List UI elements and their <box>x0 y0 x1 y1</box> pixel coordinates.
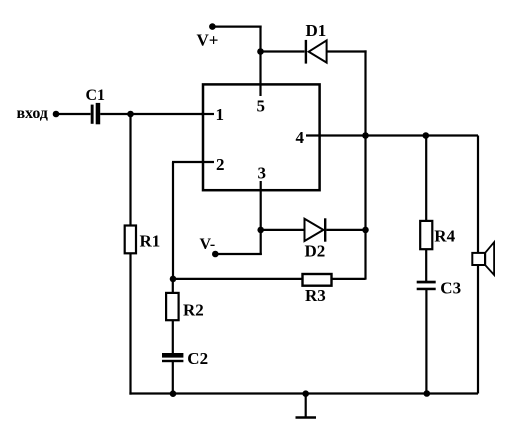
ground stub <box>305 394 307 418</box>
node вход input terminal dot <box>53 111 60 118</box>
svg-text:R3: R3 <box>305 286 326 305</box>
diode D2 <box>305 218 327 241</box>
wire V+ to corner <box>212 26 261 28</box>
diode D1 <box>305 40 327 64</box>
wire pin 2 horizontal <box>172 161 214 163</box>
svg-text:3: 3 <box>258 164 267 183</box>
wire R2 to C2 <box>172 320 174 354</box>
wire R4 to C3 <box>425 249 427 281</box>
svg-text:C1: C1 <box>86 87 106 104</box>
svg-text:D2: D2 <box>305 242 326 261</box>
wire right outer vertical <box>477 136 479 394</box>
ground bar <box>296 416 317 419</box>
svg-text:D1: D1 <box>306 21 327 40</box>
svg-text:C2: C2 <box>187 349 208 368</box>
svg-text:1: 1 <box>216 105 225 124</box>
wire pin 1 inside stub <box>201 113 214 115</box>
wire input to C1 <box>56 113 91 115</box>
wire C2 to bottom rail <box>172 362 174 394</box>
wire D1 to right corner <box>328 50 367 52</box>
capacitor C3 <box>417 281 436 291</box>
svg-text:V-: V- <box>200 236 216 253</box>
svg-text:R2: R2 <box>183 301 204 320</box>
wire pin4 junction down to R4 <box>425 136 427 222</box>
wire junction to R3 to right vertical <box>173 278 366 280</box>
node junction V+/D1/pin5 <box>257 48 264 55</box>
capacitor C2 <box>162 353 183 362</box>
wire V- to pin3 branch <box>215 253 261 255</box>
wire C1 to pin 1 <box>100 113 214 115</box>
svg-text:R4: R4 <box>434 227 455 246</box>
wire R1 down to bottom rail <box>129 253 131 394</box>
node junction pin4/D1 branch <box>362 132 369 139</box>
wire pin 2 vertical down <box>172 162 174 279</box>
node junction pin2/R2/R3 <box>170 276 177 283</box>
svg-text:4: 4 <box>296 128 305 147</box>
wire junction to D1 <box>261 50 305 52</box>
op-amp U1 body <box>203 84 320 190</box>
capacitor C1 <box>91 103 101 124</box>
wire corner down to pin 5 <box>259 26 261 97</box>
node junction pin4/R4 branch <box>423 132 430 139</box>
node junction D2/right vertical <box>362 227 369 234</box>
ground node junction <box>302 390 309 397</box>
svg-text:C3: C3 <box>440 278 461 297</box>
speaker LS1 <box>472 242 494 275</box>
power V+ terminal dot <box>209 23 216 30</box>
wire junction down to R1 <box>129 114 131 226</box>
power V- terminal dot <box>212 251 219 258</box>
resistor R3 <box>303 274 332 286</box>
wire right mid vertical <box>364 50 366 279</box>
svg-text:вход: вход <box>17 105 48 122</box>
wire pin 4 horizontal <box>306 134 478 136</box>
svg-text:V+: V+ <box>197 30 219 49</box>
resistor R4 <box>420 221 432 249</box>
node junction pin3/V-/D2 <box>257 227 264 234</box>
svg-text:2: 2 <box>216 155 225 174</box>
wire C3 to bottom rail <box>425 290 427 394</box>
node junction under C1 <box>127 111 134 118</box>
wire junction down to R2 <box>172 279 174 294</box>
resistor R1 <box>125 226 136 254</box>
svg-text:5: 5 <box>257 96 266 115</box>
svg-text:R1: R1 <box>140 231 161 250</box>
wire D2 to right vertical <box>326 229 365 231</box>
resistor R2 <box>166 293 179 320</box>
node junction C2/bottom rail <box>170 390 177 397</box>
wire pin 3 vertical <box>260 181 262 255</box>
wire junction to D2 <box>261 229 305 231</box>
wire bottom rail <box>129 392 478 394</box>
node junction C3/bottom rail <box>424 390 431 397</box>
